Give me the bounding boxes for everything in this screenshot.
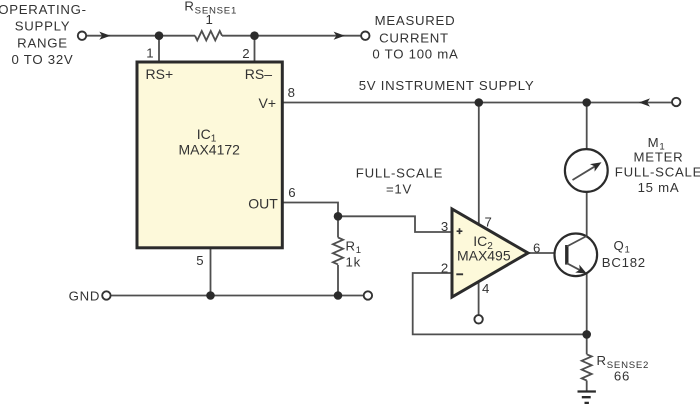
svg-text:15 mA: 15 mA xyxy=(638,180,680,195)
svg-text:0 TO 32V: 0 TO 32V xyxy=(12,52,74,67)
svg-text:METER: METER xyxy=(634,150,684,165)
svg-text:2: 2 xyxy=(441,260,449,275)
svg-text:1k: 1k xyxy=(346,255,361,270)
svg-text:RS–: RS– xyxy=(245,66,272,82)
svg-text:SUPPLY: SUPPLY xyxy=(15,19,71,34)
svg-text:1: 1 xyxy=(205,12,213,27)
svg-text:FULL-SCALE: FULL-SCALE xyxy=(356,166,443,181)
svg-text:5: 5 xyxy=(196,253,204,268)
svg-text:66: 66 xyxy=(614,369,630,384)
svg-text:MAX495: MAX495 xyxy=(457,248,511,264)
svg-text:CURRENT: CURRENT xyxy=(379,31,449,46)
svg-text:FULL-SCALE: FULL-SCALE xyxy=(615,165,700,180)
svg-text:MAX4172: MAX4172 xyxy=(178,141,240,157)
svg-text:OPERATING-: OPERATING- xyxy=(0,2,87,17)
svg-text:BC182: BC182 xyxy=(602,255,646,270)
svg-text:Q1: Q1 xyxy=(614,238,631,256)
svg-text:V+: V+ xyxy=(258,95,276,111)
svg-text:2: 2 xyxy=(242,46,250,61)
svg-text:OUT: OUT xyxy=(248,196,278,212)
svg-text:7: 7 xyxy=(485,214,493,229)
svg-text:=1V: =1V xyxy=(386,182,412,197)
svg-text:R1: R1 xyxy=(346,239,362,257)
svg-text:0 TO 100 mA: 0 TO 100 mA xyxy=(372,47,458,62)
svg-text:6: 6 xyxy=(288,185,296,200)
svg-text:MEASURED: MEASURED xyxy=(375,13,456,28)
svg-text:3: 3 xyxy=(441,219,449,234)
svg-text:5V INSTRUMENT SUPPLY: 5V INSTRUMENT SUPPLY xyxy=(359,78,535,93)
svg-text:8: 8 xyxy=(288,85,296,100)
svg-text:4: 4 xyxy=(482,281,490,296)
svg-text:1: 1 xyxy=(146,46,154,61)
svg-text:RS+: RS+ xyxy=(146,66,174,82)
svg-text:6: 6 xyxy=(533,240,541,255)
svg-text:RANGE: RANGE xyxy=(17,35,68,50)
svg-text:GND: GND xyxy=(69,288,101,303)
